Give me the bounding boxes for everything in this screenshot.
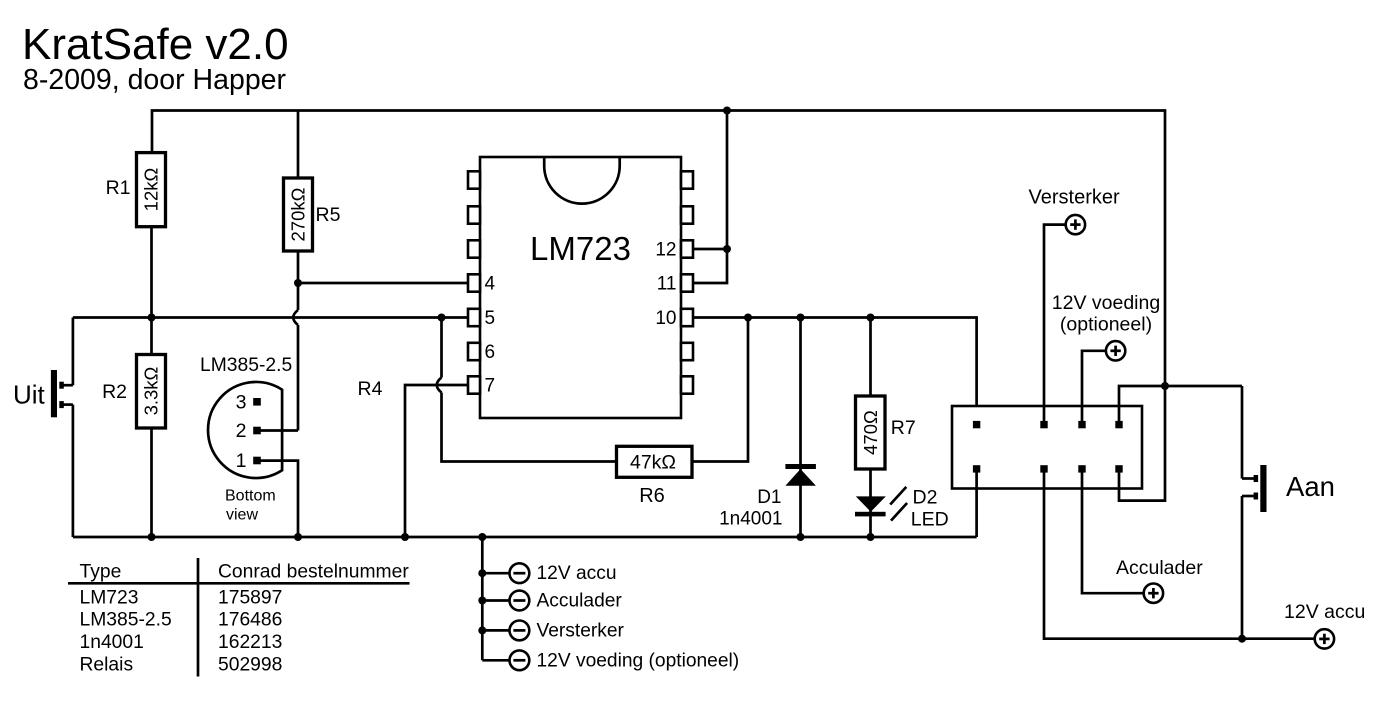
wire relay pin b1 to ground rail: [975, 472, 978, 537]
svg-text:10: 10: [655, 308, 676, 329]
wire R1 bottom to R2 top: [150, 227, 153, 355]
svg-text:(optioneel): (optioneel): [1060, 314, 1152, 336]
svg-text:502998: 502998: [218, 654, 282, 675]
terminal Acculader: [1082, 472, 1203, 603]
relay K1: [952, 406, 1142, 489]
resistor R7: [856, 318, 916, 470]
svg-text:1: 1: [236, 450, 247, 472]
terminal -12V accu: [482, 563, 616, 584]
svg-text:R6: R6: [639, 485, 665, 507]
op-amp U1 LM723 body: [480, 157, 681, 418]
wire R2 bottom to ground rail: [150, 428, 153, 537]
node pin10/R7: [867, 314, 875, 322]
svg-text:Uit: Uit: [13, 380, 46, 410]
svg-text:162213: 162213: [218, 632, 282, 653]
svg-text:176486: 176486: [218, 610, 282, 631]
svg-text:2: 2: [236, 420, 247, 442]
svg-text:Versterker: Versterker: [537, 620, 625, 641]
svg-text:D2: D2: [913, 487, 938, 509]
ground terminal block: [478, 533, 486, 660]
svg-text:Versterker: Versterker: [1029, 187, 1120, 209]
svg-text:12: 12: [655, 240, 676, 261]
node pin5/R6 branch: [438, 314, 446, 322]
svg-text:LED: LED: [911, 508, 949, 530]
IC LM385 bottom view: [200, 355, 292, 524]
svg-text:view: view: [226, 507, 258, 524]
svg-text:11: 11: [657, 274, 677, 295]
svg-text:175897: 175897: [218, 587, 282, 608]
pushbutton Uit: [13, 318, 73, 538]
svg-text:470Ω: 470Ω: [860, 410, 881, 455]
svg-text:8-2009, door Happer: 8-2009, door Happer: [23, 64, 287, 96]
wire relay pin t4 to Aan node: [1119, 386, 1242, 421]
terminal 12V voeding: [1052, 292, 1160, 421]
wire R5 bottom to pin4 node: [297, 251, 300, 310]
wire ground rail: [73, 536, 977, 539]
wire R5 vertical to LM385 pin2: [297, 325, 300, 431]
node R1/pin5 junction: [148, 314, 156, 322]
wire pin7: [405, 385, 468, 537]
terminal -Versterker: [482, 620, 624, 641]
wire hop over pin5 wire: [293, 310, 298, 325]
svg-text:12V accu: 12V accu: [1284, 601, 1365, 623]
svg-text:R7: R7: [891, 417, 916, 439]
svg-text:7: 7: [485, 376, 496, 397]
node pin12 junction: [723, 245, 731, 253]
node D1/ground: [797, 533, 805, 541]
wire to R6 left: [442, 393, 617, 462]
node pin10/R6: [744, 314, 752, 322]
svg-text:R2: R2: [102, 381, 127, 403]
svg-text:Aan: Aan: [1286, 471, 1335, 502]
wire R6 branch left vertical: [440, 318, 443, 378]
node top-rail / pin12 drop: [723, 107, 731, 115]
node Aan 4-way junction: [1161, 382, 1169, 390]
wire hop over pin7 wire: [437, 378, 442, 393]
svg-text:Bottom: Bottom: [225, 487, 276, 504]
terminal Versterker: [1029, 187, 1120, 422]
svg-text:Relais: Relais: [80, 654, 134, 675]
node LM385 pin1/ground: [294, 533, 302, 541]
wire relay pin b4 loop: [1119, 386, 1165, 501]
svg-text:3: 3: [236, 391, 247, 413]
svg-text:4: 4: [485, 274, 496, 295]
pin boxes right: [681, 171, 693, 393]
svg-text:Acculader: Acculader: [537, 591, 623, 612]
svg-text:3.3kΩ: 3.3kΩ: [141, 366, 162, 415]
svg-text:12V voeding (optioneel): 12V voeding (optioneel): [537, 650, 740, 671]
svg-text:1n4001: 1n4001: [80, 632, 144, 653]
svg-text:Conrad bestelnummer: Conrad bestelnummer: [218, 562, 409, 583]
terminal -Acculader: [482, 591, 622, 612]
node pin7/ground: [401, 533, 409, 541]
svg-text:LM723: LM723: [80, 587, 139, 608]
LED D2: [855, 469, 949, 537]
wire R6 right to pin10 wire: [692, 318, 748, 462]
node R5/pin4 junction: [294, 279, 302, 287]
svg-text:1n4001: 1n4001: [719, 509, 782, 530]
svg-text:270kΩ: 270kΩ: [288, 187, 309, 241]
wire top rail to pin11: [693, 111, 727, 284]
diode D1: [719, 318, 816, 538]
svg-text:R4: R4: [358, 378, 383, 400]
resistor R1: [106, 153, 166, 227]
node D2/ground: [867, 533, 875, 541]
svg-text:KratSafe v2.0: KratSafe v2.0: [22, 20, 289, 69]
svg-text:12V accu: 12V accu: [537, 563, 617, 584]
svg-text:Acculader: Acculader: [1116, 557, 1203, 579]
wire pin5: [73, 316, 468, 319]
wire LM385 pin2 to R5: [256, 429, 298, 432]
wire LM385 pin1 to ground: [256, 461, 298, 537]
svg-text:5: 5: [485, 308, 496, 329]
pushbutton Aan: [1242, 386, 1335, 639]
svg-text:6: 6: [485, 342, 496, 363]
wire top rail: [152, 111, 1165, 387]
svg-text:LM723: LM723: [530, 230, 631, 267]
parts table: [68, 558, 410, 677]
node R2/ground junction: [148, 533, 156, 541]
svg-text:R1: R1: [106, 177, 131, 199]
svg-text:Type: Type: [80, 562, 122, 583]
svg-text:12V voeding: 12V voeding: [1052, 292, 1160, 314]
wire pin4: [298, 282, 468, 285]
node Aan/accu rail: [1238, 635, 1246, 643]
wire pin12: [693, 248, 727, 251]
svg-text:D1: D1: [757, 487, 781, 508]
wire relay pin b2 to 12V accu: [1044, 472, 1314, 638]
resistor R6: [617, 446, 693, 507]
terminal -12V voeding: [482, 650, 739, 671]
svg-text:12kΩ: 12kΩ: [141, 168, 162, 212]
wire pin10 to relay: [693, 318, 977, 422]
svg-text:47kΩ: 47kΩ: [630, 451, 676, 473]
resistor R2: [102, 355, 165, 429]
resistor R5: [284, 111, 341, 252]
node pin10/D1: [797, 314, 805, 322]
terminal 12V accu: [1284, 601, 1365, 649]
pin boxes left: [468, 171, 480, 393]
svg-text:R5: R5: [316, 204, 341, 226]
svg-text:LM385-2.5: LM385-2.5: [80, 610, 172, 631]
svg-text:LM385-2.5: LM385-2.5: [200, 355, 292, 376]
